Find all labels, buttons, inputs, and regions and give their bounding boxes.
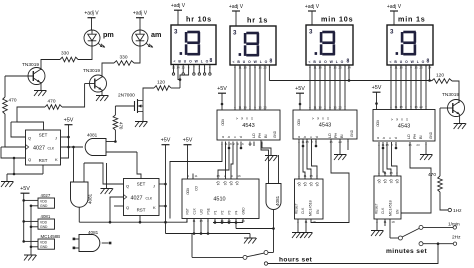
svg-text:16: 16: [258, 105, 262, 109]
svg-text:+5V: +5V: [217, 86, 227, 92]
svg-text:Q3: Q3: [395, 179, 399, 183]
svg-text:MC1458B: MC1458B: [41, 234, 61, 239]
svg-text:330: 330: [120, 55, 128, 61]
svg-text:18: 18: [216, 174, 220, 178]
svg-text:CLK: CLK: [48, 146, 55, 150]
svg-text:23: 23: [263, 66, 267, 70]
svg-text:18: 18: [243, 105, 247, 109]
svg-text:min 1s: min 1s: [398, 15, 426, 24]
svg-text:b: b: [303, 136, 307, 138]
svg-text:CLK: CLK: [381, 207, 385, 214]
svg-text:11: 11: [313, 65, 316, 69]
svg-text:MC14518: MC14518: [309, 200, 313, 216]
svg-text:4081: 4081: [88, 230, 99, 235]
svg-text:Q1: Q1: [383, 179, 387, 183]
svg-text:Q0: Q0: [297, 182, 301, 186]
svg-text:K: K: [55, 157, 58, 162]
svg-text:13: 13: [172, 65, 176, 69]
svg-text:Q1: Q1: [216, 181, 220, 185]
svg-text:18: 18: [389, 171, 393, 175]
svg-text:+5V: +5V: [161, 138, 171, 144]
svg-text:11: 11: [313, 105, 316, 109]
svg-text:Q4: Q4: [235, 181, 239, 185]
svg-text:min 10s: min 10s: [321, 15, 353, 24]
svg-text:hr 10s: hr 10s: [186, 15, 212, 24]
svg-text:hr 1s: hr 1s: [247, 16, 268, 25]
svg-text:B: B: [395, 119, 399, 121]
svg-text:11: 11: [303, 174, 306, 178]
svg-text:TN3019: TN3019: [22, 62, 39, 68]
svg-text:a: a: [221, 136, 225, 138]
svg-text:GND: GND: [40, 225, 48, 229]
svg-text:Q: Q: [28, 157, 31, 162]
svg-text:18: 18: [385, 143, 389, 147]
svg-text:J: J: [55, 136, 57, 141]
svg-text:470: 470: [119, 122, 124, 130]
svg-text:16: 16: [237, 174, 241, 178]
svg-text:d: d: [239, 136, 243, 138]
svg-text:Q2: Q2: [389, 179, 393, 183]
svg-text:4543: 4543: [242, 123, 254, 129]
svg-text:GND: GND: [429, 131, 433, 139]
svg-text:A: A: [311, 118, 315, 120]
svg-text:18: 18: [243, 66, 247, 70]
svg-text:18: 18: [228, 142, 232, 146]
svg-text:4543: 4543: [319, 123, 331, 129]
svg-text:8: 8: [427, 59, 430, 65]
svg-text:8: 8: [210, 58, 213, 64]
svg-text:b: b: [382, 137, 386, 139]
svg-text:LD: LD: [407, 134, 411, 139]
svg-text:<BUOWLO: <BUOWLO: [174, 59, 212, 63]
svg-text:B: B: [316, 118, 320, 120]
svg-text:+5V: +5V: [183, 138, 193, 144]
svg-text:EN: EN: [316, 209, 320, 214]
svg-text:4510: 4510: [213, 197, 225, 203]
svg-text:c: c: [388, 137, 392, 139]
svg-text:8: 8: [347, 59, 350, 65]
svg-text:BI: BI: [419, 135, 423, 139]
svg-text:18: 18: [312, 220, 316, 224]
svg-text:18: 18: [399, 105, 403, 109]
svg-text:GND: GND: [40, 204, 48, 208]
svg-text:18: 18: [199, 219, 203, 223]
svg-text:11: 11: [394, 65, 397, 69]
svg-text:RESET: RESET: [375, 203, 379, 214]
svg-text:BI: BI: [264, 134, 268, 138]
svg-text:+adj V: +adj V: [171, 3, 186, 9]
svg-text:GND: GND: [273, 130, 277, 138]
svg-text:23: 23: [338, 105, 342, 109]
svg-text:23: 23: [263, 105, 267, 109]
svg-text:VDD: VDD: [221, 119, 225, 126]
svg-text:hours set: hours set: [279, 256, 313, 263]
svg-text:VDD: VDD: [297, 119, 301, 126]
svg-text:11: 11: [192, 219, 195, 223]
svg-text:23: 23: [416, 143, 420, 147]
svg-text:PH: PH: [413, 133, 417, 139]
svg-text:14: 14: [176, 65, 180, 69]
svg-text:MC14518: MC14518: [389, 200, 393, 216]
svg-text:23: 23: [338, 65, 342, 69]
svg-text:c: c: [309, 136, 313, 138]
svg-text:<BUOWLO: <BUOWLO: [233, 60, 271, 64]
svg-text:pm: pm: [103, 30, 114, 39]
svg-text:4027: 4027: [41, 193, 51, 198]
svg-text:4543: 4543: [398, 123, 410, 129]
svg-text:CO: CO: [194, 186, 198, 191]
svg-text:Q: Q: [28, 136, 31, 141]
svg-text:Q1: Q1: [303, 182, 307, 186]
svg-text:3: 3: [233, 30, 237, 37]
svg-text:TN3019: TN3019: [442, 92, 459, 98]
svg-text:<BUOWLO: <BUOWLO: [309, 60, 347, 64]
svg-text:4081: 4081: [88, 193, 93, 204]
svg-text:470: 470: [9, 98, 17, 104]
svg-text:Q: Q: [126, 205, 129, 210]
svg-text:LD: LD: [252, 133, 256, 138]
svg-text:<BUOWLO: <BUOWLO: [390, 60, 428, 64]
svg-text:11: 11: [383, 171, 386, 175]
svg-text:VDD: VDD: [40, 241, 48, 245]
svg-text:2Hz: 2Hz: [452, 235, 461, 241]
svg-text:GND: GND: [40, 245, 48, 249]
svg-text:b: b: [227, 136, 231, 138]
svg-text:A: A: [235, 118, 239, 120]
svg-text:RST: RST: [137, 208, 146, 213]
svg-text:P2: P2: [221, 210, 225, 214]
svg-text:330: 330: [61, 51, 69, 57]
svg-text:18: 18: [318, 65, 322, 69]
svg-text:4081: 4081: [87, 133, 98, 138]
svg-text:18: 18: [399, 65, 403, 69]
svg-text:10: 10: [182, 65, 186, 69]
svg-text:23: 23: [338, 140, 342, 144]
svg-text:18: 18: [309, 174, 313, 178]
svg-text:TN3019: TN3019: [83, 68, 100, 74]
svg-text:CLK: CLK: [193, 207, 197, 214]
svg-text:RST: RST: [39, 158, 48, 163]
svg-text:RST: RST: [186, 208, 190, 214]
svg-text:1Hz: 1Hz: [453, 208, 462, 214]
svg-text:EN: EN: [396, 209, 400, 214]
svg-text:P4: P4: [235, 210, 239, 214]
svg-text:+5V: +5V: [372, 85, 382, 91]
svg-text:8: 8: [270, 59, 273, 65]
svg-text:Q3: Q3: [315, 182, 319, 186]
svg-text:a: a: [297, 136, 301, 138]
svg-text:A: A: [390, 119, 394, 121]
svg-text:VDD: VDD: [376, 120, 380, 127]
svg-text:PH: PH: [334, 132, 338, 138]
svg-text:U/D: U/D: [200, 208, 204, 214]
svg-text:+5V: +5V: [20, 186, 30, 192]
svg-text:Q: Q: [126, 184, 129, 189]
svg-text:SET: SET: [39, 133, 48, 138]
svg-text:11: 11: [394, 105, 397, 109]
svg-text:1/min: 1/min: [448, 222, 460, 228]
svg-text:120: 120: [436, 73, 444, 79]
svg-text:120: 120: [157, 80, 165, 86]
svg-text:B: B: [240, 118, 244, 120]
svg-text:4027: 4027: [131, 196, 143, 202]
svg-text:CLK: CLK: [301, 207, 305, 214]
svg-text:2N7000: 2N7000: [118, 93, 135, 99]
svg-text:+adj V: +adj V: [133, 11, 148, 17]
svg-text:23: 23: [419, 65, 423, 69]
svg-text:CLK: CLK: [146, 196, 153, 200]
svg-text:GND: GND: [242, 207, 246, 215]
svg-text:VDD: VDD: [40, 221, 48, 225]
svg-text:18: 18: [391, 220, 395, 224]
svg-text:4081: 4081: [275, 195, 280, 206]
svg-text:16: 16: [408, 143, 412, 147]
svg-text:P3: P3: [228, 210, 232, 214]
svg-text:PH: PH: [258, 132, 262, 138]
svg-text:18: 18: [305, 140, 309, 144]
svg-text:+5V: +5V: [295, 86, 305, 92]
svg-text:d: d: [394, 137, 398, 139]
svg-text:11: 11: [194, 174, 197, 178]
svg-text:minutes set: minutes set: [386, 248, 427, 255]
svg-text:4081: 4081: [41, 214, 51, 219]
svg-text:11: 11: [238, 66, 241, 70]
svg-text:3: 3: [309, 29, 313, 36]
svg-text:16: 16: [240, 142, 244, 146]
svg-text:23: 23: [419, 105, 423, 109]
svg-text:RESET: RESET: [295, 203, 299, 214]
svg-text:16: 16: [333, 65, 337, 69]
svg-text:470: 470: [428, 172, 436, 178]
svg-text:Q2: Q2: [223, 181, 227, 185]
svg-text:Q3: Q3: [229, 181, 233, 185]
svg-text:23: 23: [248, 142, 252, 146]
svg-text:16: 16: [414, 105, 418, 109]
svg-text:3: 3: [390, 29, 394, 36]
svg-text:VDD: VDD: [186, 188, 190, 195]
svg-text:BI: BI: [340, 134, 344, 138]
svg-text:16: 16: [258, 66, 262, 70]
svg-text:16: 16: [414, 65, 418, 69]
svg-text:11: 11: [238, 105, 241, 109]
svg-text:+adj V: +adj V: [84, 11, 99, 17]
svg-text:PSE: PSE: [207, 208, 211, 214]
svg-text:470: 470: [48, 99, 56, 105]
svg-text:+adj V: +adj V: [387, 4, 402, 10]
svg-text:GND: GND: [350, 129, 354, 137]
svg-text:18: 18: [318, 105, 322, 109]
svg-text:4027: 4027: [33, 146, 45, 152]
svg-text:+adj V: +adj V: [229, 4, 244, 10]
svg-text:Q2: Q2: [309, 182, 313, 186]
svg-text:c: c: [233, 136, 237, 138]
svg-text:+5V: +5V: [64, 118, 74, 124]
svg-text:VDD: VDD: [40, 200, 48, 204]
svg-text:d: d: [315, 136, 319, 138]
svg-text:J: J: [153, 184, 155, 189]
svg-text:3: 3: [174, 29, 178, 36]
svg-text:16: 16: [333, 105, 337, 109]
svg-text:am: am: [151, 30, 161, 39]
svg-text:LD: LD: [328, 133, 332, 138]
svg-text:SET: SET: [137, 182, 146, 187]
svg-text:Q0: Q0: [377, 179, 381, 183]
svg-text:16: 16: [329, 140, 333, 144]
svg-text:P1: P1: [214, 210, 218, 214]
svg-text:K: K: [153, 205, 156, 210]
svg-text:a: a: [376, 137, 380, 139]
svg-text:+adj V: +adj V: [305, 4, 320, 10]
